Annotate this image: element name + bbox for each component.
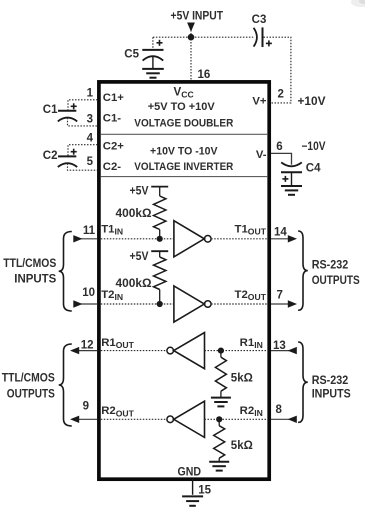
svg-text:+10V: +10V (298, 96, 326, 108)
svg-text:C5: C5 (124, 49, 139, 61)
svg-text:VOLTAGE DOUBLER: VOLTAGE DOUBLER (134, 118, 233, 130)
svg-text:C1-: C1- (103, 113, 121, 125)
ground below C5 (142, 68, 164, 70)
resistor 5k receiver R2 (218, 419, 220, 425)
svg-text:16: 16 (198, 69, 211, 81)
svg-text:2: 2 (277, 88, 283, 100)
wire T1 output (211, 238, 267, 240)
svg-text:6: 6 (276, 141, 282, 153)
resistor 5k receiver R1 (220, 351, 222, 358)
svg-text:RS-232: RS-232 (312, 375, 349, 387)
wire pin 13 (271, 350, 297, 352)
node R2 input junction (216, 416, 222, 422)
svg-text:V+: V+ (252, 95, 267, 107)
svg-text:OUTPUTS: OUTPUTS (312, 275, 360, 287)
arrow out of pin 9 (70, 416, 79, 423)
arrow into pin 10 (73, 300, 82, 307)
svg-text:+5V: +5V (130, 251, 149, 263)
ground pin 15 (182, 495, 203, 497)
svg-text:11: 11 (83, 225, 96, 237)
node R1 input junction (218, 348, 224, 354)
wire pin 9 (79, 418, 98, 420)
node +5V junction (188, 34, 195, 41)
IC box U1 (99, 82, 269, 479)
svg-text:C1+: C1+ (103, 92, 124, 104)
svg-text:+5V TO +10V: +5V TO +10V (148, 101, 215, 113)
svg-text:C1: C1 (43, 104, 58, 116)
+5V rail bar driver 1 (151, 186, 168, 188)
ground below 5k R1 (211, 397, 231, 399)
wire C3 to V+ pin 2 (264, 37, 291, 103)
capacitor C4 (281, 162, 302, 166)
wire pin 12 (79, 350, 98, 352)
svg-text:1: 1 (87, 88, 94, 100)
resistor 400k driver 1 (154, 196, 166, 230)
wire R1 output (101, 350, 167, 352)
svg-text:+5V INPUT: +5V INPUT (171, 8, 224, 22)
pin 5 wire (68, 163, 98, 170)
svg-text:+5V: +5V (130, 186, 149, 198)
svg-text:C2+: C2+ (103, 140, 124, 152)
arrow into +5V node (187, 23, 195, 32)
svg-text:9: 9 (83, 400, 89, 412)
wire pin 14 (271, 238, 289, 240)
svg-text:C2: C2 (43, 150, 58, 162)
ground below 5k R2 (209, 461, 229, 463)
ground below C4 (281, 185, 302, 187)
op-amp receiver R1 (167, 347, 174, 354)
svg-text:INPUTS: INPUTS (312, 389, 351, 401)
wire R1 input (205, 350, 268, 352)
arrow into pin 8 (288, 416, 297, 423)
capacitor C1 (71, 105, 77, 107)
brace RS-232 outputs (298, 231, 308, 310)
divider inverter/drivers (101, 176, 267, 178)
svg-text:12: 12 (81, 339, 94, 351)
wire +5V input node to C5 and C3 (153, 36, 253, 38)
wire R2 input (205, 418, 268, 420)
pin 15 wire (192, 479, 194, 495)
op-amp driver T1 (174, 221, 204, 257)
svg-text:5: 5 (87, 156, 94, 168)
pin 3 wire (68, 118, 98, 126)
capacitor C5 (152, 37, 154, 50)
svg-text:7: 7 (277, 289, 283, 301)
capacitor C3 (254, 28, 257, 47)
svg-text:15: 15 (198, 485, 211, 497)
wire pin 11 (74, 238, 98, 240)
arrow out of pin 14 (288, 235, 297, 242)
svg-text:3: 3 (87, 113, 93, 125)
arrow out of pin 12 (70, 347, 79, 354)
arrow into pin 13 (288, 347, 297, 354)
divider doubler/inverter (101, 133, 267, 135)
wire T1 input (101, 238, 174, 240)
capacitor C2 (71, 151, 77, 153)
svg-text:GND: GND (178, 466, 202, 478)
svg-text:RS-232: RS-232 (312, 259, 349, 271)
svg-text:INPUTS: INPUTS (14, 273, 56, 285)
svg-text:VOLTAGE INVERTER: VOLTAGE INVERTER (134, 161, 233, 173)
+5V rail bar driver 2 (151, 250, 168, 252)
arrow into pin 11 (73, 235, 82, 242)
svg-text:14: 14 (274, 226, 287, 238)
wire T2 input (101, 303, 174, 305)
pin 1 wire (68, 100, 98, 111)
svg-text:V-: V- (256, 149, 267, 161)
svg-text:400kΩ: 400kΩ (116, 208, 152, 220)
svg-text:10: 10 (82, 287, 95, 299)
svg-text:5kΩ: 5kΩ (231, 372, 253, 384)
svg-text:OUTPUTS: OUTPUTS (7, 389, 55, 401)
wire node down to pin 16 (190, 30, 192, 82)
svg-text:−10V: −10V (302, 141, 326, 153)
svg-text:5kΩ: 5kΩ (231, 440, 253, 452)
wire R2 output (101, 418, 167, 420)
resistor 400k driver 2 (154, 257, 166, 290)
op-amp receiver R2 (167, 416, 174, 423)
svg-text:8: 8 (276, 404, 283, 416)
wire pin 7 (271, 303, 289, 305)
pin 4 wire (68, 145, 98, 157)
op-amp driver T2 (174, 286, 204, 322)
svg-text:C4: C4 (306, 162, 321, 174)
node T2 input junction (157, 301, 163, 307)
wire pin 10 (74, 303, 98, 305)
pin 6 wire to C4 (271, 153, 292, 164)
svg-text:400kΩ: 400kΩ (116, 278, 152, 290)
svg-text:TTL/CMOS: TTL/CMOS (2, 372, 55, 384)
brace RS-232 inputs (298, 342, 308, 422)
node T1 input junction (157, 236, 163, 242)
svg-text:4: 4 (87, 132, 94, 144)
brace TTL/CMOS inputs (59, 232, 72, 312)
wire T2 output (211, 303, 267, 305)
wire pin 8 (271, 418, 297, 420)
svg-text:+10V TO -10V: +10V TO -10V (150, 145, 218, 157)
svg-text:C3: C3 (252, 14, 267, 26)
svg-text:TTL/CMOS: TTL/CMOS (3, 258, 56, 270)
brace TTL/CMOS outputs (59, 344, 72, 426)
arrow out of pin 7 (288, 300, 297, 307)
svg-text:C2-: C2- (103, 161, 121, 173)
